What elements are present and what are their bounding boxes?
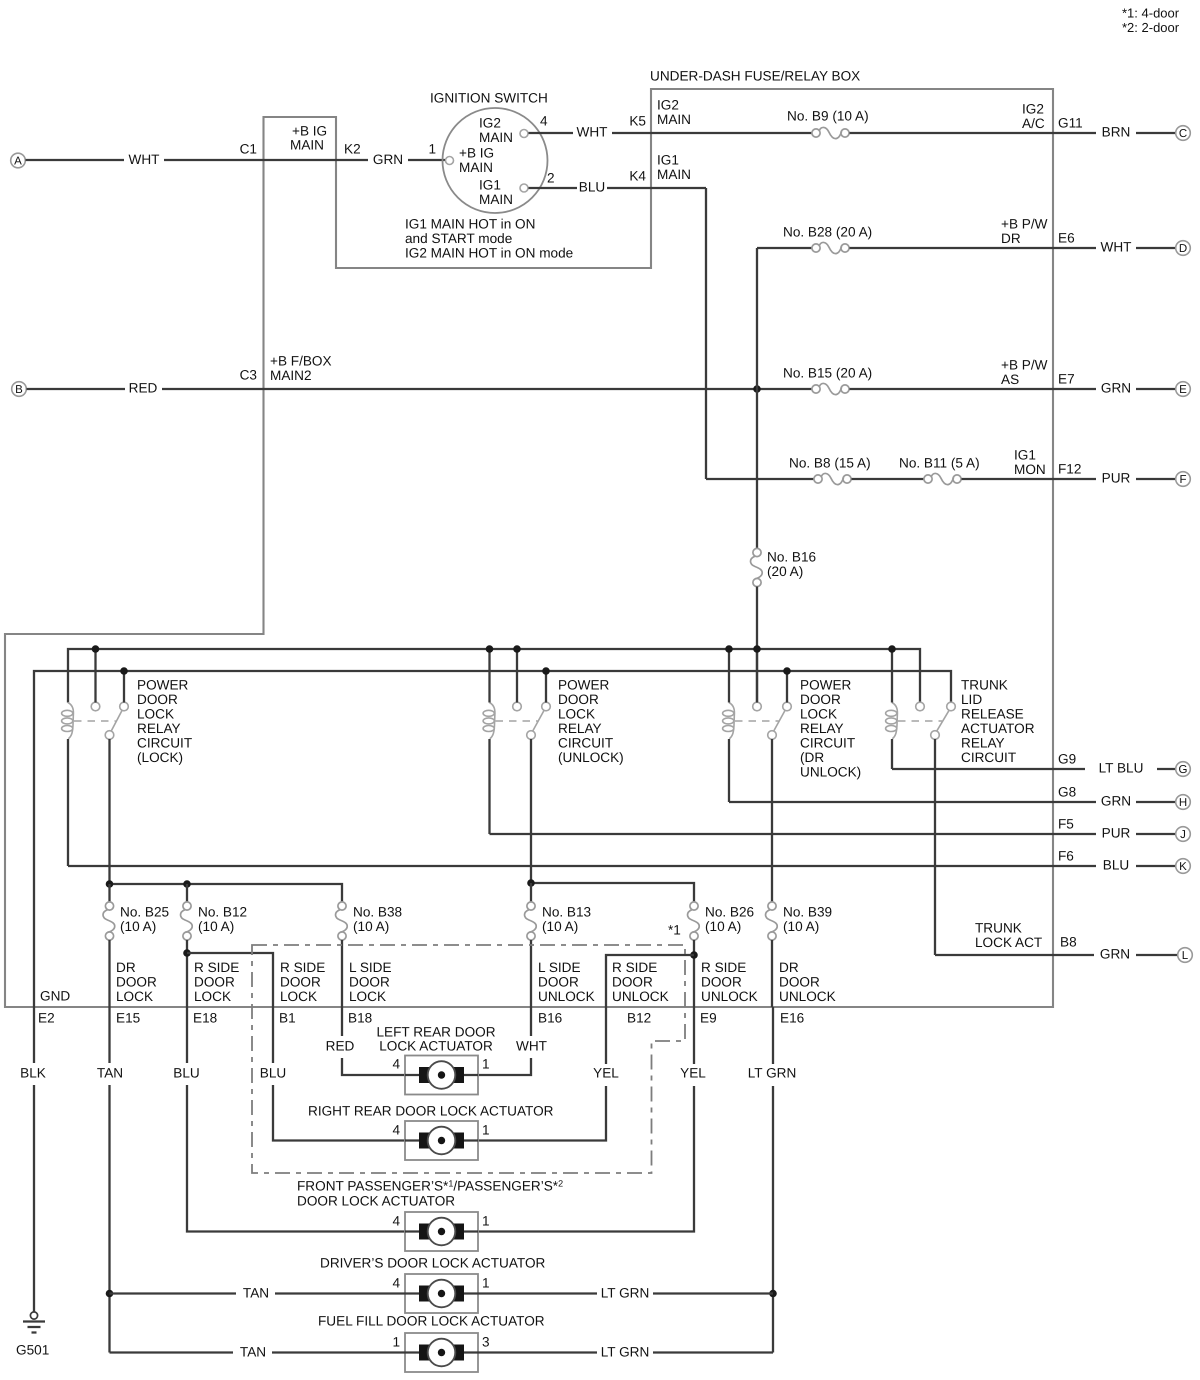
svg-text:TAN: TAN (240, 1345, 266, 1360)
svg-text:4: 4 (392, 1123, 400, 1138)
ignition switch body (443, 108, 548, 213)
fuse No. B15 (812, 383, 849, 394)
wire GND E2 lower (BLK) (33, 1085, 35, 1312)
svg-text:No. B8 (15 A): No. B8 (15 A) (789, 456, 871, 471)
ignition pin 2 terminal (520, 184, 528, 192)
wire BRN to connector C (1136, 132, 1176, 134)
svg-text:F5: F5 (1058, 817, 1074, 832)
svg-text:G11: G11 (1058, 116, 1083, 131)
wire RED to fuse B15 (162, 388, 813, 390)
wire WHT to connector D (1136, 247, 1176, 249)
wire F6 row (68, 865, 1096, 867)
svg-text:WHT: WHT (577, 125, 608, 140)
connector H (1176, 795, 1191, 810)
wire UNLOCK terminal A (516, 649, 518, 703)
svg-text:A: A (14, 156, 22, 168)
wire E9 to front passenger pin 1 (478, 1086, 694, 1232)
wire driver pin1 to E16 (653, 1292, 773, 1294)
wire BLU to connector K (1136, 865, 1176, 867)
fuse No. B13 (525, 902, 537, 940)
ground G501 (23, 1312, 45, 1333)
junction UNLOCK termB on bus2 (542, 667, 550, 675)
svg-text:UNDER-DASH FUSE/RELAY BOX: UNDER-DASH FUSE/RELAY BOX (650, 69, 860, 84)
svg-text:E15: E15 (116, 1011, 140, 1026)
wire B12 to right rear pin 1 (478, 1086, 606, 1141)
svg-text:4: 4 (540, 114, 548, 129)
svg-text:GRN: GRN (1100, 947, 1130, 962)
svg-text:YEL: YEL (593, 1066, 619, 1081)
wire DR UNLOCK terminal A from B16 (756, 649, 758, 703)
fuse No. B28 (812, 242, 849, 253)
wire DR UNLOCK coil to G8 (728, 739, 730, 802)
svg-text:PUR: PUR (1102, 471, 1131, 486)
wire ignition pin 4 to WHT (529, 132, 574, 134)
power door lock relay (UNLOCK) (483, 702, 550, 739)
connector D (1176, 241, 1191, 256)
wire DR UNLOCK switch output to fuse B39 (771, 739, 773, 902)
power door lock relay (LOCK) (62, 702, 129, 739)
svg-text:WHT: WHT (129, 152, 160, 167)
svg-text:LT GRN: LT GRN (601, 1345, 650, 1360)
svg-text:LT GRN: LT GRN (601, 1286, 650, 1301)
wire fuel pin3 to E16 (653, 1351, 773, 1353)
wire B25 to pin E15 (108, 940, 110, 1007)
wire B12 pin upper (605, 1007, 607, 1064)
svg-text:IG2A/C: IG2A/C (1022, 102, 1045, 132)
wire UNLOCK terminal B (545, 671, 547, 703)
svg-text:E2: E2 (38, 1011, 55, 1026)
junction B26/B12 branch (690, 951, 698, 959)
svg-text:K: K (1179, 861, 1187, 873)
svg-text:*1: 4-door*2: 2-door: *1: 4-door*2: 2-door (1122, 6, 1180, 36)
svg-text:BLK: BLK (20, 1066, 46, 1081)
svg-text:BLU: BLU (579, 180, 605, 195)
wire driver pin4 left (110, 1292, 237, 1294)
wire driver pin4 right (275, 1292, 405, 1294)
fuse No. B12 (181, 902, 193, 940)
svg-text:2: 2 (547, 171, 555, 186)
junction UNLOCK coil on bus1 (486, 645, 494, 653)
driver door lock actuator (405, 1274, 478, 1313)
svg-text:1: 1 (392, 1335, 400, 1350)
wire LOCK switch output (108, 739, 110, 884)
wire ignition pin 2 to BLU (529, 187, 578, 189)
svg-text:K5: K5 (629, 114, 646, 129)
svg-text:No. B9 (10 A): No. B9 (10 A) (787, 109, 869, 124)
svg-text:J: J (1180, 829, 1186, 841)
svg-text:L SIDEDOORLOCK: L SIDEDOORLOCK (349, 960, 392, 1004)
wire BLU to K4 corner (607, 187, 706, 189)
svg-text:+B IG: +B IG (292, 124, 327, 139)
wire LOCK coil to F6 (67, 739, 69, 866)
wire B25 feed (108, 884, 110, 902)
svg-text:E7: E7 (1058, 372, 1075, 387)
wire B28 corner down to fuse B16 (756, 248, 758, 549)
fuse No. B9 (812, 127, 849, 138)
svg-text:4: 4 (392, 1276, 400, 1291)
wire B12 to pin E18 (186, 940, 188, 1007)
connector G (1176, 762, 1191, 777)
svg-text:No. B15 (20 A): No. B15 (20 A) (783, 366, 872, 381)
svg-text:K4: K4 (629, 169, 646, 184)
wire B1 to right rear pin 4 (273, 1085, 405, 1141)
svg-text:YEL: YEL (680, 1066, 706, 1081)
svg-text:1: 1 (482, 1057, 490, 1072)
wire UNLOCK coil to F5 (488, 739, 490, 834)
wire B16 upper (530, 1007, 532, 1036)
wire TRUNK output to B8 exit (935, 954, 1094, 956)
wire E9 upper (693, 1007, 695, 1064)
junction LOCK termA on bus1 (92, 645, 100, 653)
wire fuse B28 to E6 exit (850, 247, 1097, 249)
svg-text:4: 4 (392, 1214, 400, 1229)
fuel fill door lock actuator (405, 1333, 478, 1372)
wire E16 upper (772, 1007, 774, 1064)
junction LOCK termB on bus2 (120, 667, 128, 675)
svg-text:IGNITION SWITCH: IGNITION SWITCH (430, 91, 548, 106)
svg-text:E18: E18 (193, 1011, 217, 1026)
svg-text:WHT: WHT (1101, 240, 1132, 255)
fuse No. B11 (924, 473, 961, 484)
wire B18 to left rear pin 4 (342, 1058, 405, 1075)
wire UNLOCK output bus to B26 (531, 883, 694, 902)
wire GRN to connector E (1136, 388, 1176, 390)
wire B12 feed (186, 884, 188, 902)
wire F5 row (490, 833, 1097, 835)
power door lock relay (DR UNLOCK) (723, 702, 792, 739)
under-dash fuse/relay box outline (5, 89, 1053, 1007)
connector E (1176, 382, 1191, 397)
svg-text:B18: B18 (348, 1011, 372, 1026)
svg-text:B8: B8 (1060, 935, 1077, 950)
trunk lid release actuator relay (886, 702, 956, 739)
wire GRN to connector L (1136, 954, 1177, 956)
connector K (1176, 859, 1191, 874)
svg-text:F12: F12 (1058, 462, 1081, 477)
wire G9 row (892, 768, 1085, 770)
svg-text:WHT: WHT (516, 1039, 547, 1054)
wire WHT to GRN (164, 159, 368, 161)
front passenger door lock actuator (405, 1212, 478, 1251)
svg-text:L: L (1182, 950, 1189, 962)
svg-text:C1: C1 (240, 142, 257, 157)
svg-text:GRN: GRN (1101, 381, 1131, 396)
wire GRN to connector H (1136, 801, 1176, 803)
junction B15/B16 node (753, 385, 761, 393)
svg-text:BLU: BLU (260, 1066, 286, 1081)
fuse No. B8 (814, 473, 851, 484)
svg-text:+B IGMAIN: +B IGMAIN (459, 146, 494, 176)
wire fuse B16 to relay bus (756, 587, 758, 703)
fuse No. B38 (336, 902, 348, 940)
svg-text:TAN: TAN (243, 1286, 269, 1301)
svg-text:*1: *1 (668, 923, 681, 938)
wire B13 to pin B16 (530, 940, 532, 1007)
svg-text:DRIVER’S DOOR LOCK ACTUATOR: DRIVER’S DOOR LOCK ACTUATOR (320, 1256, 546, 1271)
fuse No. B26 (688, 902, 700, 940)
svg-text:G8: G8 (1058, 785, 1076, 800)
connector B (12, 382, 27, 397)
svg-text:RED: RED (129, 381, 158, 396)
connector J (1176, 827, 1191, 842)
wire B16 to left rear pin 1 (478, 1058, 531, 1075)
junction B25 tap (106, 880, 114, 888)
junction E15 at driver row (106, 1290, 114, 1298)
wire PUR to connector J (1136, 833, 1176, 835)
svg-text:F6: F6 (1058, 849, 1074, 864)
wire E16 lower to fuel row (772, 1086, 774, 1353)
svg-text:BLU: BLU (1103, 858, 1129, 873)
svg-text:1: 1 (482, 1123, 490, 1138)
svg-text:GND: GND (40, 989, 70, 1004)
svg-text:LEFT REAR DOORLOCK ACTUATOR: LEFT REAR DOORLOCK ACTUATOR (376, 1025, 495, 1054)
wire E15 upper (108, 1007, 110, 1063)
svg-text:GRN: GRN (373, 152, 403, 167)
wire DR UNLOCK terminal B (786, 671, 788, 703)
wire LOCK relay terminal A (94, 649, 96, 703)
svg-text:H: H (1179, 797, 1187, 809)
wire B39 to pin E16 (771, 940, 773, 1007)
wire relay ground bus (wire2) (34, 671, 951, 1007)
svg-text:K2: K2 (344, 142, 361, 157)
wire GRN to ignition pin 1 (408, 159, 446, 161)
wire B26 branch to pin B12 (606, 955, 694, 1007)
wire A to WHT (26, 159, 125, 161)
left rear door lock actuator (405, 1056, 478, 1095)
svg-text:GRN: GRN (1101, 794, 1131, 809)
ignition pin 1 terminal (446, 157, 454, 165)
svg-text:D: D (1179, 243, 1187, 255)
wire TRUNK coil to G9 (891, 739, 893, 769)
svg-text:G9: G9 (1058, 752, 1076, 767)
svg-text:E16: E16 (780, 1011, 804, 1026)
svg-text:4: 4 (392, 1057, 400, 1072)
wire fuse B15 to E7 exit (850, 388, 1097, 390)
wire UNLOCK coil feed (488, 649, 490, 703)
wire B38 to pin B18 (341, 940, 343, 1007)
svg-text:E6: E6 (1058, 231, 1075, 246)
wire PUR to connector F (1136, 478, 1176, 480)
svg-text:B12: B12 (627, 1011, 651, 1026)
wire E18 upper (186, 1007, 188, 1063)
junction E16 at driver row (769, 1290, 777, 1298)
svg-text:1: 1 (428, 142, 436, 157)
svg-text:RIGHT REAR DOOR LOCK ACTUATOR: RIGHT REAR DOOR LOCK ACTUATOR (308, 1104, 554, 1119)
wire GND E2 upper (33, 1007, 35, 1063)
svg-text:LT GRN: LT GRN (748, 1066, 797, 1081)
wire G8 row (729, 801, 1096, 803)
wire K4 corner to fuse B8 (706, 478, 815, 480)
svg-text:B: B (15, 384, 23, 396)
junction B16 feed on bus1 (753, 645, 761, 653)
svg-text:3: 3 (482, 1335, 490, 1350)
ignition pin 4 terminal (520, 130, 528, 138)
wire fuel pin3 to LT GRN (478, 1351, 597, 1353)
wire DR UNLOCK coil feed (728, 649, 730, 703)
wire K4 down to F row (705, 188, 707, 479)
svg-text:C: C (1179, 128, 1187, 140)
svg-text:MAIN: MAIN (290, 138, 324, 153)
dash-dot enclosure *1 (4-door) (252, 945, 685, 1173)
right rear door lock actuator (405, 1121, 478, 1160)
svg-text:No. B28 (20 A): No. B28 (20 A) (783, 225, 872, 240)
fuse No. B25 (103, 902, 115, 940)
wire B26 to pin E9 (693, 940, 695, 1007)
svg-text:BLU: BLU (173, 1066, 199, 1081)
svg-text:G501: G501 (16, 1343, 49, 1358)
junction DR UNLOCK termB on bus2 (783, 667, 791, 675)
svg-text:E9: E9 (700, 1011, 717, 1026)
wire UNLOCK switch output (530, 739, 532, 883)
wire LOCK relay terminal B (123, 671, 125, 703)
svg-text:1: 1 (482, 1276, 490, 1291)
svg-text:B16: B16 (538, 1011, 562, 1026)
wire TRUNK switch output (934, 739, 936, 955)
junction B12 tap (183, 880, 191, 888)
svg-text:FUEL FILL DOOR LOCK ACTUATOR: FUEL FILL DOOR LOCK ACTUATOR (318, 1314, 545, 1329)
wire driver pin1 to LT GRN (478, 1292, 597, 1294)
junction UNLOCK termA on bus1 (513, 645, 521, 653)
wire TRUNK coil feed (891, 649, 893, 703)
wire fuel pin1 right (272, 1351, 405, 1353)
svg-text:C3: C3 (240, 368, 257, 383)
svg-text:1: 1 (482, 1214, 490, 1229)
wire LT BLU to connector G (1157, 768, 1176, 770)
connector L (1178, 948, 1193, 963)
svg-text:No. B11 (5 A): No. B11 (5 A) (899, 456, 980, 471)
svg-text:LT BLU: LT BLU (1099, 761, 1144, 776)
junction B13 tap (527, 879, 535, 887)
wire LOCK output bus to B38 (110, 884, 343, 902)
junction B12/B1 branch (183, 949, 191, 957)
wire relay power bus (wire1) (68, 649, 920, 703)
svg-text:TAN: TAN (97, 1066, 123, 1081)
wire B1 upper (272, 1007, 274, 1063)
svg-text:PUR: PUR (1102, 826, 1131, 841)
wire B13 feed (530, 883, 532, 902)
svg-text:E: E (1179, 384, 1187, 396)
svg-text:F: F (1179, 474, 1186, 486)
wire fuse B8 to fuse B11 (852, 478, 925, 480)
junction DR UNLOCK coil on bus1 (725, 645, 733, 653)
wire B12 branch to pin B1 (187, 953, 273, 1007)
fuse No. B16 (751, 548, 763, 586)
wire B to RED (27, 388, 126, 390)
wire fuse B11 to F12 exit (962, 478, 1097, 480)
junction TRUNK coil on bus1 (888, 645, 896, 653)
svg-text:RED: RED (326, 1039, 355, 1054)
connector C (1176, 126, 1191, 141)
svg-text:G: G (1179, 764, 1188, 776)
connector A (11, 153, 26, 168)
svg-text:BRN: BRN (1102, 125, 1131, 140)
wire E18 to front passenger pin 4 (187, 1085, 405, 1232)
wire E15 lower to fuel row (108, 1085, 110, 1353)
wire B16 node to fuse B28 (757, 247, 813, 249)
fuse No. B39 (766, 902, 778, 940)
wire B18 upper (341, 1007, 343, 1036)
wire fuse B9 to G11 exit (850, 132, 1097, 134)
wire fuel pin1 left (110, 1351, 234, 1353)
wire WHT to fuse B9 (612, 132, 813, 134)
connector F (1176, 472, 1191, 487)
svg-text:B1: B1 (279, 1011, 296, 1026)
